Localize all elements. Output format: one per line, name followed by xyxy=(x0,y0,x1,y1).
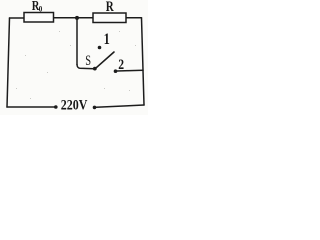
wire junction A to R xyxy=(77,17,93,19)
node junction A dot xyxy=(75,16,79,20)
switch S blade xyxy=(95,52,114,69)
wire switch foot to pivot xyxy=(77,65,94,69)
wire top-left (source left leg to R0) xyxy=(10,17,25,19)
resistor R0 xyxy=(24,13,54,23)
source terminal dot right xyxy=(93,106,97,110)
wire bottom-right (220V right terminal to right corner) xyxy=(96,105,144,107)
wire switch stem from junction A down xyxy=(76,18,78,65)
svg-text:R: R xyxy=(106,0,115,14)
svg-text:1: 1 xyxy=(104,31,110,49)
paper speckles xyxy=(16,31,136,99)
switch contact 1 dot xyxy=(98,46,102,50)
wire R to top-right corner xyxy=(126,17,142,19)
wire bottom-left (to 220V left terminal) xyxy=(7,106,55,108)
wire R0 to junction A xyxy=(54,17,93,19)
switch contact 2 dot xyxy=(114,69,118,73)
source terminal dot left xyxy=(54,105,58,109)
svg-text:S: S xyxy=(85,53,91,69)
label R0 xyxy=(32,0,43,14)
svg-text:2: 2 xyxy=(118,56,124,73)
wire right vertical xyxy=(142,18,145,105)
svg-text:220V: 220V xyxy=(61,96,88,113)
resistor R xyxy=(93,13,126,23)
wire contact 2 to right vertical xyxy=(117,69,143,72)
switch pivot dot xyxy=(93,67,97,71)
wire left vertical xyxy=(7,18,10,107)
svg-text:0: 0 xyxy=(39,4,43,14)
